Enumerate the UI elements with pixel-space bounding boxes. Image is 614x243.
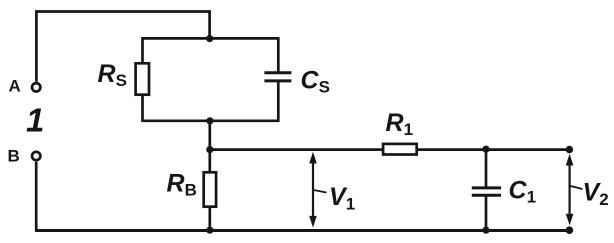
- node: terminal dot right end of bottom rail: [566, 226, 574, 234]
- svg-text:V2: V2: [583, 179, 609, 210]
- wire from CS down to loop bottom rail: [277, 82, 280, 122]
- svg-text:R1: R1: [386, 109, 414, 139]
- svg-text:RS: RS: [98, 60, 127, 90]
- svg-text:V1: V1: [329, 183, 355, 214]
- resistor R1: [383, 144, 417, 155]
- wire from C1 down to bottom rail: [485, 196, 488, 231]
- wire from terminal A up and across the top to node over RS/CS: [36, 12, 209, 82]
- wire from terminal B down to bottom rail: [35, 162, 38, 231]
- wire from R1 to right end: [417, 148, 570, 151]
- svg-text:B: B: [8, 147, 20, 166]
- resistor RB: [204, 172, 216, 206]
- resistor RS: [136, 63, 149, 94]
- wire from node down to C1: [485, 149, 488, 187]
- svg-text:CS: CS: [301, 67, 330, 97]
- terminal B: [32, 152, 40, 160]
- node: terminal dot right end of middle wire: [566, 146, 574, 154]
- terminal A: [32, 83, 40, 91]
- wire right branch down to CS: [277, 37, 280, 71]
- V2 measurement arrow (double headed): [566, 154, 574, 226]
- middle horizontal wire from node to R1: [210, 148, 383, 151]
- pointer tick to V2 label: [571, 186, 583, 189]
- V1 measurement arrow (double headed): [309, 152, 317, 228]
- node: junction dot where middle wire meets RB branch: [206, 146, 213, 153]
- RS/CS parallel loop top rail wire: [143, 37, 279, 40]
- node: junction dot at bottom of RB: [206, 227, 213, 234]
- node: junction dot at bottom of RS/CS loop: [206, 117, 213, 124]
- wire from RB down to bottom rail: [208, 207, 211, 231]
- pointer tick to V1 label: [314, 190, 327, 193]
- capacitor CS: [264, 73, 291, 81]
- RS/CS loop bottom rail wire: [143, 119, 279, 122]
- svg-text:A: A: [9, 77, 21, 96]
- svg-text:C1: C1: [509, 177, 537, 207]
- svg-text:RB: RB: [167, 170, 197, 200]
- wire from loop bottom down through node to RB: [208, 121, 211, 173]
- node: junction dot at C1 top: [482, 146, 489, 153]
- node: junction dot at top of RS/CS loop: [206, 35, 213, 42]
- wire from RS down to loop bottom rail: [141, 95, 144, 122]
- node: junction dot at C1 bottom: [482, 227, 489, 234]
- bottom rail wire: [35, 229, 569, 232]
- svg-text:1: 1: [26, 102, 44, 139]
- capacitor C1: [472, 188, 501, 195]
- wire left branch down to RS: [141, 37, 144, 63]
